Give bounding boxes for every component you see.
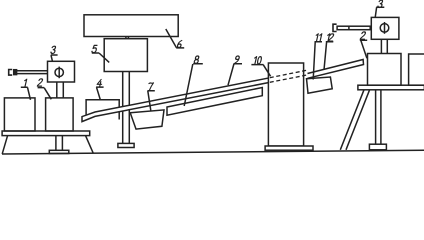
digit 4	[97, 80, 103, 87]
fork left	[9, 70, 13, 76]
label 6 leader	[166, 29, 184, 48]
label 9 leader	[228, 64, 242, 85]
digit 3 right	[378, 0, 383, 7]
left pedestal trapezoid left side	[2, 136, 7, 154]
box at right edge	[409, 54, 424, 85]
left pedestal foot	[49, 150, 69, 153]
box 6	[84, 15, 178, 37]
neck between 6 and 5	[126, 37, 128, 39]
digit 3 left	[51, 46, 56, 53]
left pedestal trapezoid right side	[86, 136, 94, 154]
ground line	[2, 150, 424, 154]
ramp solid lower section	[82, 78, 270, 122]
label 1 leader	[21, 87, 31, 100]
label 3 left leader	[51, 55, 58, 61]
middle column foot	[265, 146, 313, 150]
label 10 leader	[251, 65, 270, 77]
digits 12	[326, 34, 334, 41]
rod left	[17, 71, 48, 74]
box 4	[86, 100, 119, 120]
right table leg	[376, 90, 381, 144]
collar left	[14, 70, 17, 75]
digit 2 left	[37, 79, 43, 86]
box 5	[104, 39, 147, 72]
label 4 leader	[96, 87, 104, 99]
column under box 5	[123, 72, 130, 144]
rod right	[337, 26, 370, 30]
stem under vibrator	[57, 82, 64, 98]
digit 8	[194, 56, 199, 63]
box 2 left	[46, 98, 74, 131]
label 5 leader	[92, 53, 109, 62]
digits 11	[315, 34, 322, 41]
label 3 right leader	[375, 7, 384, 17]
hanging box 7	[130, 110, 164, 129]
digit 7	[148, 83, 154, 90]
digit 9	[235, 56, 240, 63]
digits 10	[253, 57, 262, 64]
left table top	[2, 131, 90, 136]
label 8 leader	[184, 64, 203, 106]
ramp solid upper section	[308, 60, 364, 79]
foot of column under box 5	[118, 143, 134, 147]
vibrator box U-right	[371, 17, 399, 39]
box 2 right	[368, 54, 402, 86]
vibrator box U-left	[48, 61, 75, 82]
fork right	[333, 24, 337, 31]
phi symbol right	[380, 24, 389, 33]
stem right	[381, 39, 387, 53]
box 1	[4, 98, 35, 131]
middle column	[268, 63, 303, 146]
right table foot	[369, 144, 386, 150]
label 2 left leader	[38, 88, 52, 100]
digit 5	[92, 45, 98, 52]
label 11 leader	[313, 42, 322, 80]
right table top	[358, 85, 424, 90]
digit 1	[23, 79, 26, 86]
hidden ramp dashed lines 10	[270, 70, 308, 82]
right table brace	[340, 90, 369, 150]
label 7 leader	[147, 91, 154, 111]
under plate 8	[167, 88, 262, 116]
digit 2 right	[360, 32, 366, 39]
label 2 right leader	[360, 40, 367, 58]
left pedestal column	[56, 136, 63, 151]
digit 6	[177, 41, 182, 48]
phi symbol left	[55, 68, 63, 76]
hanging piece 11	[307, 77, 333, 93]
label 12 leader	[324, 42, 333, 70]
